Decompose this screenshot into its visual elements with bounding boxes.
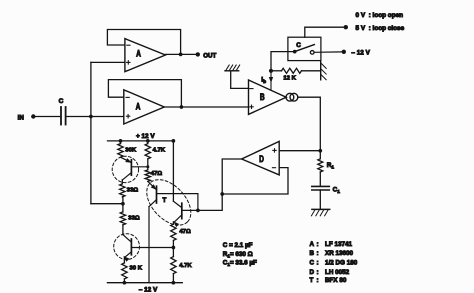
- svg-text:LF 13741: LF 13741: [325, 241, 352, 248]
- svg-text:12 K: 12 K: [283, 76, 296, 82]
- transistor pair T: [148, 181, 157, 189]
- transistor pair T second: [173, 201, 181, 207]
- svg-text:XR 13600: XR 13600: [325, 250, 354, 257]
- svg-text:+ 12 V: + 12 V: [136, 133, 155, 140]
- svg-text:30K: 30K: [125, 148, 137, 154]
- resistor R1: [319, 151, 321, 159]
- resistor 33ohm lower: [122, 204, 124, 212]
- svg-text:T: T: [310, 277, 314, 284]
- switch contact: [293, 50, 297, 54]
- capacitor C1: [312, 185, 330, 187]
- wire A2 feedback: [108, 80, 181, 107]
- svg-text:C: C: [59, 98, 64, 105]
- resistor 12K: [271, 70, 282, 72]
- svg-text:B: B: [260, 92, 265, 102]
- svg-text:C: C: [310, 260, 315, 267]
- svg-text:– 12 V: – 12 V: [139, 286, 158, 293]
- resistor 47ohm lower: [172, 222, 174, 224]
- wire switch control: [305, 27, 344, 37]
- svg-text::: :: [317, 269, 319, 276]
- wire +12 downleg: [172, 141, 174, 201]
- svg-text:4.7K: 4.7K: [153, 148, 166, 154]
- wire to D +: [279, 150, 320, 152]
- wire A1 output: [165, 53, 196, 55]
- wire B minus to ground: [231, 71, 249, 88]
- wire A1 feedback: [107, 30, 180, 55]
- wire input vertical: [90, 62, 92, 203]
- wire to A1 +: [91, 61, 125, 63]
- svg-text:47Ω: 47Ω: [179, 229, 191, 235]
- svg-text:LH 0052: LH 0052: [325, 269, 350, 276]
- resistor 4.7K top: [147, 141, 149, 144]
- wire B output down: [298, 97, 321, 151]
- op-amp A2: [124, 90, 165, 124]
- ground below C1: [312, 208, 330, 210]
- svg-text:T: T: [163, 197, 167, 204]
- svg-text:A: A: [136, 102, 141, 112]
- svg-text:C = 2.1 µF: C = 2.1 µF: [223, 242, 253, 249]
- svg-text:B: B: [310, 250, 315, 257]
- svg-text:33Ω: 33Ω: [127, 187, 139, 193]
- svg-text::: :: [317, 250, 319, 257]
- ground bar right of box: [320, 61, 322, 80]
- svg-text:– 12 V: – 12 V: [351, 49, 370, 56]
- svg-text:A: A: [136, 49, 141, 59]
- svg-text:IN: IN: [18, 116, 25, 122]
- resistor 30K bottom: [122, 263, 127, 279]
- B output current symbol: [286, 93, 294, 101]
- wire IN to C: [35, 116, 60, 118]
- capacitor C: [60, 107, 62, 125]
- node junction input: [89, 115, 93, 119]
- wire Ib arrow: [270, 71, 272, 91]
- wire D output: [182, 159, 242, 210]
- op-amp A1: [125, 39, 165, 72]
- svg-text:1/2 DG 180: 1/2 DG 180: [325, 260, 358, 267]
- node OUT: [196, 52, 200, 56]
- -12V rail: [107, 282, 182, 284]
- op-amp B: [249, 80, 287, 114]
- node Ib junction: [269, 69, 273, 73]
- wire switch to -12V: [314, 51, 341, 53]
- svg-text:BFX 80: BFX 80: [325, 277, 347, 284]
- svg-text:R1= 630 Ω: R1= 630 Ω: [223, 251, 253, 259]
- transistor T1: [121, 157, 132, 162]
- wire C to node: [67, 116, 124, 118]
- transistor T3: [122, 225, 124, 235]
- ground near B: [225, 70, 239, 72]
- svg-text:30 K: 30 K: [130, 266, 143, 272]
- svg-text:A: A: [310, 241, 315, 248]
- resistor 33ohm upper: [121, 180, 123, 184]
- switch box C: [288, 37, 321, 60]
- resistor 4.7K lower: [172, 248, 174, 257]
- svg-text:4.7K: 4.7K: [179, 263, 192, 269]
- wire A2 output to B: [164, 106, 248, 108]
- wire D feedback: [222, 168, 288, 194]
- svg-text::: :: [317, 277, 319, 284]
- svg-text:D: D: [310, 269, 315, 276]
- node 33 mid: [122, 197, 124, 204]
- resistor 30K top: [120, 141, 122, 144]
- svg-text:33Ω: 33Ω: [128, 216, 140, 222]
- svg-text:D: D: [259, 154, 264, 164]
- op-amp D: [242, 141, 280, 175]
- svg-text:C: C: [296, 42, 301, 49]
- svg-text::: :: [317, 241, 319, 248]
- svg-text:0 V : loop open: 0 V : loop open: [356, 12, 404, 19]
- resistor 47ohm mid: [145, 170, 150, 182]
- svg-text:5 V : loop close: 5 V : loop close: [356, 25, 405, 32]
- +12V rail: [108, 140, 174, 142]
- wire switch left leg: [271, 52, 295, 69]
- svg-text:47Ω: 47Ω: [151, 171, 163, 177]
- svg-text:OUT: OUT: [203, 52, 216, 59]
- svg-text::: :: [317, 260, 319, 267]
